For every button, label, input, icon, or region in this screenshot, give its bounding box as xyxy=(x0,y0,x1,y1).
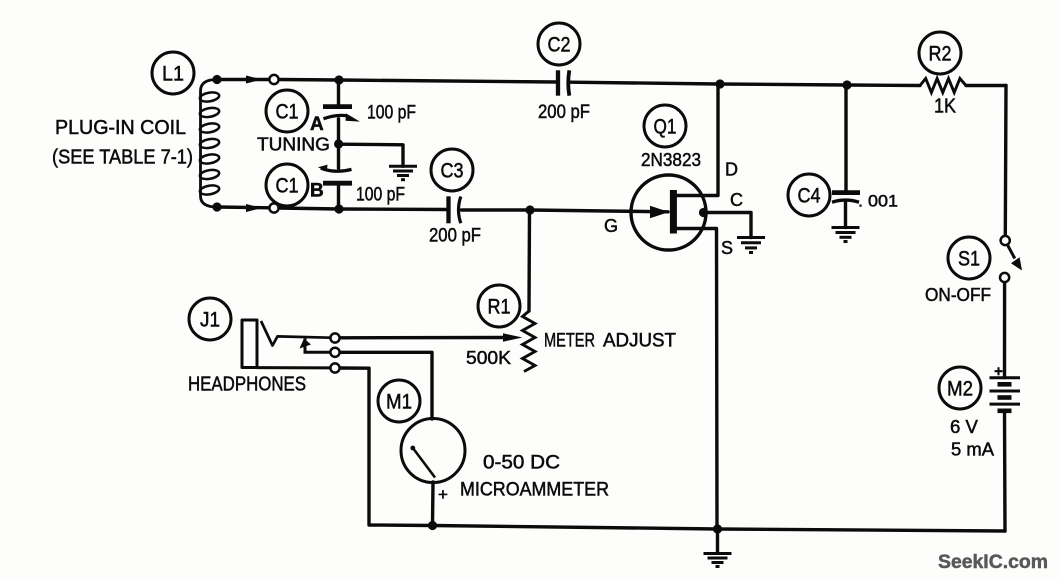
wire coil bottom terminal to plug pin xyxy=(217,205,270,209)
svg-text:+: + xyxy=(438,485,448,504)
label circle C1 (A) xyxy=(266,90,308,132)
wire gate row: plug pin B to C3, C3 to gate junction, junction to FET gate xyxy=(279,208,446,210)
svg-text:M1: M1 xyxy=(386,391,412,414)
label circle C2 xyxy=(538,23,580,65)
svg-text:METER: METER xyxy=(544,331,595,352)
svg-text:B: B xyxy=(310,181,324,202)
ground (FET case) xyxy=(737,238,765,253)
svg-text:Q1: Q1 xyxy=(654,116,677,139)
svg-text:500K: 500K xyxy=(466,348,511,368)
capacitor C4 .001 xyxy=(832,193,860,203)
svg-text:M2: M2 xyxy=(947,378,973,401)
svg-text:HEADPHONES: HEADPHONES xyxy=(188,374,306,396)
label circle Q1 xyxy=(644,105,686,147)
svg-text:R2: R2 xyxy=(929,43,952,66)
wire meter M1 bottom to bottom bus xyxy=(431,482,435,526)
wire battery bottom down to bottom-right corner xyxy=(1003,411,1007,531)
svg-text:C2: C2 xyxy=(548,34,571,57)
wire switch lower contact down to battery top xyxy=(1003,282,1006,377)
wire J1 sleeve contact to left bottom corner xyxy=(340,366,369,370)
label circle M2 xyxy=(939,367,981,409)
svg-text:G: G xyxy=(604,216,618,236)
jack J1 tip contact spring xyxy=(261,321,331,346)
svg-text:+: + xyxy=(994,363,1003,380)
label circle C1 (B) xyxy=(266,164,308,206)
svg-text:D: D xyxy=(725,160,738,180)
arrow on top coil wire xyxy=(246,76,262,84)
wire coil top terminal to plug pin xyxy=(217,78,270,81)
wire J1 ring contact to meter M1 top xyxy=(340,352,432,419)
switch S1 lever and arrow xyxy=(1008,246,1022,271)
capacitor C1 section A (variable, tuning) xyxy=(323,107,360,122)
capacitor C2 200 pF xyxy=(558,70,569,95)
arrow R1 wiper xyxy=(503,333,523,341)
label circle J1 xyxy=(189,298,231,340)
switch S1 contact circles xyxy=(1001,236,1010,245)
meter M1 microammeter xyxy=(401,419,465,483)
arrow on bottom coil wire xyxy=(246,204,262,212)
jack J1 ring contact branch xyxy=(305,339,331,353)
svg-text:C1: C1 xyxy=(276,175,299,198)
label circle S1 xyxy=(948,237,990,279)
svg-text:100 pF: 100 pF xyxy=(367,103,416,124)
plug pin circles on coil wires xyxy=(269,75,278,84)
svg-text:ADJUST: ADJUST xyxy=(603,331,676,352)
label circle L1 xyxy=(152,52,194,94)
svg-text:S: S xyxy=(721,238,733,258)
svg-text:100 pF: 100 pF xyxy=(356,185,405,206)
svg-text:SeekIC.com: SeekIC.com xyxy=(938,551,1048,573)
ground (C4) xyxy=(832,228,860,242)
svg-text:C3: C3 xyxy=(441,160,464,183)
jack J1 headphone body xyxy=(242,320,331,368)
svg-text:200 pF: 200 pF xyxy=(538,102,590,123)
jack J1 contact arrow xyxy=(300,339,312,349)
label circle M1 xyxy=(378,380,420,422)
label circle C4 xyxy=(788,174,830,216)
wire source: FET source down to bottom bus xyxy=(676,229,717,530)
wire bottom ground bus: left corner to meter node, FET-source node, right corner xyxy=(369,368,1005,531)
svg-text:6 V: 6 V xyxy=(950,417,978,437)
capacitor C3 200 pF xyxy=(449,196,461,223)
capacitor C1 section B (variable, tuning) xyxy=(318,165,352,184)
wire J1 tip contact to R1 wiper xyxy=(340,336,506,340)
svg-text:2N3823: 2N3823 xyxy=(641,150,701,170)
ground (tuning tap) xyxy=(389,166,417,179)
svg-text:200 pF: 200 pF xyxy=(429,226,481,247)
inductor L1 plug-in coil xyxy=(199,80,220,208)
svg-text:0-50 DC: 0-50 DC xyxy=(483,453,560,474)
svg-text:TUNING: TUNING xyxy=(257,135,330,155)
wire top bus: plug pin to C2, C2 to drain node, to C4 node, to R2 xyxy=(279,80,556,83)
svg-text:L1: L1 xyxy=(162,63,184,86)
wire tuning column through C1A and C1B xyxy=(337,80,340,106)
label circle R1 xyxy=(478,285,520,327)
label circle R2 xyxy=(919,32,961,74)
wire drain: FET drain up to top bus xyxy=(676,84,718,196)
svg-text:5 mA: 5 mA xyxy=(951,440,994,460)
svg-text:1K: 1K xyxy=(934,96,957,118)
svg-text:MICROAMMETER: MICROAMMETER xyxy=(460,480,609,501)
svg-text:R1: R1 xyxy=(488,296,511,319)
jack J1 terminal circles xyxy=(330,333,339,342)
wire FET case to ground xyxy=(704,213,752,238)
wire tuning center tap to ground xyxy=(339,144,403,166)
svg-text:A: A xyxy=(310,114,324,135)
svg-text:. 001: . 001 xyxy=(858,192,898,211)
svg-text:ON-OFF: ON-OFF xyxy=(925,285,991,305)
svg-text:J1: J1 xyxy=(200,309,220,332)
transistor Q1 2N3823 FET xyxy=(631,175,708,250)
wire C3 junction down to R1 top xyxy=(527,210,531,311)
svg-text:C: C xyxy=(730,190,743,210)
label circle C3 xyxy=(431,149,473,191)
wire C4 stub from top bus xyxy=(844,85,847,192)
wire right vertical: R2 corner down to switch S1 xyxy=(1004,86,1008,236)
ground (bottom bus) xyxy=(704,554,732,567)
svg-text:C4: C4 xyxy=(798,185,821,208)
wire bottom junction stub to ground xyxy=(716,529,719,553)
svg-text:PLUG-IN COIL: PLUG-IN COIL xyxy=(55,117,186,139)
battery M2 6V xyxy=(990,378,1021,411)
resistor R2 1K zigzag xyxy=(920,79,966,93)
svg-text:C1: C1 xyxy=(276,101,299,124)
svg-text:(SEE TABLE 7-1): (SEE TABLE 7-1) xyxy=(52,147,193,169)
svg-text:S1: S1 xyxy=(958,248,980,271)
potentiometer R1 500K zigzag xyxy=(523,311,536,372)
